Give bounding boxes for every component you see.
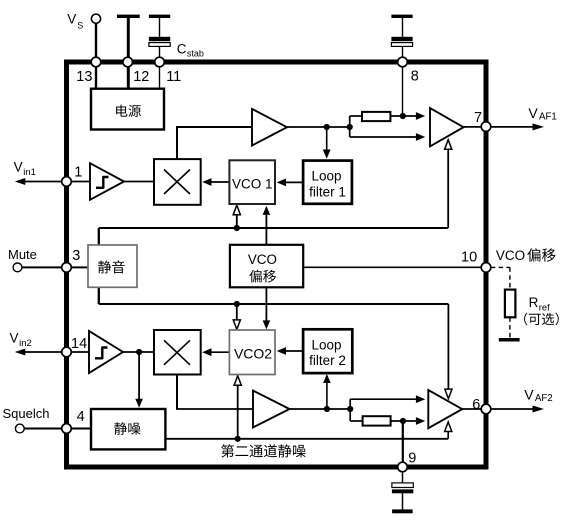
- svg-text:Loop: Loop: [311, 337, 341, 352]
- svg-text:in1: in1: [23, 167, 36, 178]
- svg-text:filter 2: filter 2: [309, 353, 346, 368]
- svg-text:9: 9: [408, 451, 416, 467]
- svg-text:6: 6: [472, 397, 480, 413]
- svg-text:VCO 1: VCO 1: [232, 177, 273, 192]
- svg-text:C: C: [177, 42, 187, 57]
- svg-text:12: 12: [133, 69, 149, 85]
- svg-text:filter 1: filter 1: [309, 184, 346, 199]
- svg-text:7: 7: [474, 110, 482, 126]
- svg-text:R: R: [529, 295, 539, 310]
- svg-text:VCO: VCO: [496, 248, 525, 263]
- svg-text:V: V: [524, 387, 534, 403]
- svg-text:V: V: [10, 330, 19, 345]
- svg-text:Loop: Loop: [311, 169, 341, 184]
- svg-text:AF2: AF2: [535, 393, 553, 404]
- svg-text:14: 14: [71, 336, 87, 352]
- svg-text:in2: in2: [19, 338, 32, 349]
- svg-text:S: S: [77, 20, 83, 30]
- svg-text:AF1: AF1: [539, 111, 557, 122]
- svg-text:11: 11: [166, 69, 181, 85]
- svg-text:8: 8: [411, 69, 419, 85]
- svg-text:V: V: [528, 105, 538, 121]
- svg-text:ref: ref: [539, 302, 550, 312]
- svg-text:3: 3: [72, 248, 80, 264]
- svg-text:13: 13: [76, 69, 92, 85]
- svg-text:4: 4: [77, 409, 85, 425]
- svg-text:VCO: VCO: [248, 252, 277, 267]
- svg-text:Mute: Mute: [8, 247, 37, 262]
- svg-text:V: V: [14, 160, 23, 175]
- svg-text:stab: stab: [187, 49, 204, 59]
- svg-text:1: 1: [74, 164, 82, 180]
- svg-text:VCO2: VCO2: [234, 346, 272, 362]
- svg-text:V: V: [67, 11, 76, 26]
- svg-text:10: 10: [461, 250, 477, 266]
- svg-text:Squelch: Squelch: [3, 406, 50, 421]
